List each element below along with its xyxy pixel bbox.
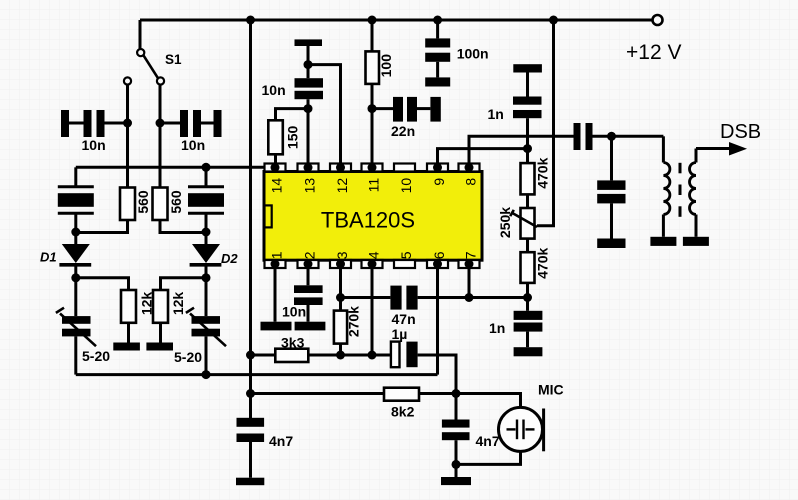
ground tank bbox=[597, 239, 625, 249]
wire cap to pin 13 bbox=[307, 99, 310, 163]
node +12V / 3k3 bbox=[246, 351, 255, 360]
capacitor 1n lower bbox=[526, 298, 529, 311]
resistor 150 bbox=[268, 120, 283, 154]
ground transformer primary bbox=[650, 237, 676, 246]
wire D1 node down to trimmer bbox=[74, 278, 77, 316]
wire 560L bottom to D1 node bbox=[76, 220, 128, 233]
wire bottom bus y=374.6 to pin 6 bbox=[76, 373, 438, 376]
node 470k / 1n / 47n line bbox=[523, 293, 532, 302]
wire pin 9 up to line B bbox=[438, 149, 528, 164]
wire D2 node to 12k right bbox=[161, 278, 207, 290]
svg-text:47n: 47n bbox=[392, 311, 416, 327]
ground 4n7 left bbox=[236, 478, 264, 486]
wire 150 to pin 14 bbox=[274, 154, 277, 163]
svg-text:8: 8 bbox=[463, 178, 479, 186]
wire 12k right to ground bbox=[159, 323, 162, 343]
svg-text:12k: 12k bbox=[170, 292, 186, 316]
wire crystal X2 to D2 bbox=[205, 213, 208, 244]
svg-text:TBA120S: TBA120S bbox=[321, 208, 415, 233]
capacitor 1n (top, open terminal) bbox=[513, 64, 542, 72]
mic electret symbol bbox=[507, 420, 535, 440]
node pin3 / 47n / 270k bbox=[336, 293, 345, 302]
wire 47n to pin7 node and 1n node bbox=[418, 296, 528, 299]
node pin11 / 22n bbox=[368, 104, 377, 113]
svg-text:+12 V: +12 V bbox=[626, 41, 681, 64]
svg-text:2: 2 bbox=[302, 251, 318, 259]
svg-text:7: 7 bbox=[463, 251, 479, 259]
capacitor 10n (pin 2) bbox=[294, 285, 323, 293]
wire 1u right to mic line jog bbox=[418, 355, 456, 394]
wire pin 7 down bbox=[468, 268, 471, 298]
node 270k / bias line bbox=[336, 351, 345, 360]
wire 270k to 3k3 line bbox=[339, 344, 342, 355]
wire D1 node to 12k left bbox=[76, 278, 129, 290]
capacitor 10n left (with open terminal bar) bbox=[61, 110, 105, 137]
node crystal2 top bbox=[202, 163, 211, 172]
svg-text:1: 1 bbox=[269, 251, 285, 259]
svg-text:3k3: 3k3 bbox=[281, 335, 305, 351]
DSB output arrow bbox=[729, 142, 747, 156]
wire secondary to DSB output bbox=[696, 147, 730, 150]
switch S1 bbox=[124, 49, 164, 85]
wire pin 3 down through 47n node bbox=[339, 268, 342, 311]
wire coupling cap to tank node bbox=[593, 135, 664, 138]
svg-text:4n7: 4n7 bbox=[476, 433, 500, 449]
pin dots bottom bbox=[271, 260, 474, 269]
svg-text:560: 560 bbox=[168, 190, 184, 214]
svg-text:11: 11 bbox=[366, 178, 382, 193]
ground 100n bbox=[425, 77, 450, 86]
wire terminal to cap bbox=[307, 46, 310, 78]
node tank bbox=[607, 132, 616, 141]
svg-text:12: 12 bbox=[334, 178, 350, 194]
svg-text:10n: 10n bbox=[181, 137, 205, 153]
svg-text:MIC: MIC bbox=[538, 382, 564, 398]
node 10n bottom / 150 branch bbox=[304, 104, 313, 113]
mic capsule bar bbox=[542, 409, 545, 452]
node rail/100 resistor bbox=[368, 16, 377, 25]
wire oscillator bus y=167.3 to pin 14 bbox=[76, 166, 275, 169]
resistor 270k bbox=[334, 311, 347, 344]
svg-text:10n: 10n bbox=[282, 304, 306, 320]
wire pin 1 to ground bbox=[274, 268, 277, 322]
wire bias line 3k3 to 1u bbox=[308, 354, 390, 357]
svg-text:4n7: 4n7 bbox=[269, 433, 293, 449]
capacitor 22n bbox=[372, 97, 441, 122]
svg-text:13: 13 bbox=[302, 178, 318, 194]
microphone MIC bbox=[499, 407, 543, 451]
resistor 12k left bbox=[121, 290, 136, 323]
wire cap to ground bbox=[307, 305, 310, 322]
wire branch to pin 12 bbox=[308, 65, 341, 164]
resistor 470k upper bbox=[521, 163, 535, 194]
svg-text:100n: 100n bbox=[457, 46, 489, 62]
pot 250k wiper arrow bbox=[511, 212, 537, 227]
svg-text:6: 6 bbox=[431, 251, 447, 259]
diode D1 bbox=[59, 244, 91, 265]
capacitor 47n bbox=[390, 286, 401, 310]
node X1/560L bbox=[71, 228, 80, 237]
IC pin tabs top bbox=[265, 164, 480, 172]
wire 100 to pin 11 bbox=[371, 84, 374, 164]
capacitor coupling (output) bbox=[574, 123, 581, 150]
diode D2 bbox=[190, 244, 222, 265]
resistor 12k right bbox=[153, 290, 168, 323]
svg-text:1µ: 1µ bbox=[392, 326, 408, 342]
wire trimmer L to bottom bus bbox=[74, 336, 77, 374]
capacitor tank bbox=[610, 136, 613, 180]
wire pin 2 to cap bbox=[307, 268, 310, 285]
wire S1 right contact down bbox=[159, 85, 162, 188]
crystal X2 bbox=[188, 187, 224, 213]
wire 3k3 line left bbox=[251, 354, 276, 357]
svg-text:14: 14 bbox=[269, 178, 285, 194]
resistor 3k3 bbox=[275, 349, 308, 362]
IC notch bbox=[265, 205, 272, 227]
resistor 560 left bbox=[120, 188, 135, 221]
potentiometer 250k bbox=[521, 208, 535, 239]
node D2 bottom bbox=[202, 273, 211, 282]
svg-text:9: 9 bbox=[431, 178, 447, 186]
ground pin 1 bbox=[261, 322, 292, 331]
resistor 8k2 bbox=[384, 388, 419, 401]
svg-text:1n: 1n bbox=[488, 106, 504, 122]
transformer T1 primary bbox=[662, 136, 665, 162]
svg-text:D1: D1 bbox=[40, 250, 57, 265]
wire left crystal column bbox=[74, 167, 77, 186]
node +12V / 8k2 bbox=[246, 389, 255, 398]
wire 470k lower to node bbox=[526, 283, 529, 298]
wire D1 to node bbox=[74, 266, 77, 280]
node junction S1-right / cap bbox=[156, 119, 165, 128]
pin number labels top row bbox=[269, 178, 479, 194]
svg-text:250k: 250k bbox=[497, 207, 513, 238]
node rail/+12V drop bbox=[246, 16, 255, 25]
node junction S1-left / cap bbox=[123, 119, 132, 128]
capacitor 10n (pin 13) plates bbox=[295, 78, 324, 87]
capacitor 4n7 (left, supply decoupling) bbox=[237, 418, 265, 427]
wire S1 left contact down to 560 bbox=[126, 85, 129, 188]
trimmer capacitor 5-20 left bbox=[56, 308, 96, 347]
crystal X1 bbox=[58, 187, 94, 213]
svg-text:560: 560 bbox=[135, 190, 151, 214]
wire terminal to 1n bbox=[526, 73, 529, 97]
node D1 bottom bbox=[71, 273, 80, 282]
transformer core bbox=[679, 163, 682, 217]
wire mic bottom return bbox=[456, 451, 521, 464]
wire right crystal column top bbox=[205, 167, 208, 186]
svg-text:10n: 10n bbox=[82, 137, 106, 153]
wire 470k to 250k bbox=[526, 194, 529, 208]
node X2/560R bbox=[202, 228, 211, 237]
wire 1n down across line A to node B bbox=[526, 118, 529, 163]
node rail/100n bbox=[433, 16, 442, 25]
ground transformer secondary bbox=[683, 237, 709, 246]
svg-text:5-20: 5-20 bbox=[174, 349, 202, 365]
capacitor 10n right (with open terminal bar) bbox=[180, 110, 222, 137]
wire pin 6 down to bottom bus bbox=[436, 268, 439, 375]
svg-text:470k: 470k bbox=[535, 248, 551, 279]
wire branch to resistor 150 bbox=[276, 109, 309, 121]
node pin 7 bbox=[465, 293, 474, 302]
wire 12k left to ground bbox=[127, 323, 130, 343]
svg-text:3: 3 bbox=[334, 251, 350, 259]
wire 250k to 470k lower bbox=[526, 239, 529, 253]
capacitor 4n7 (mic) bbox=[455, 394, 458, 420]
pin dots top bbox=[271, 163, 474, 172]
svg-text:10: 10 bbox=[398, 178, 414, 194]
wire +12V right drop x=553.5 bbox=[537, 20, 554, 226]
svg-text:10n: 10n bbox=[262, 82, 286, 98]
node mic line / 4n7 bbox=[452, 389, 461, 398]
pin number labels bottom row bbox=[269, 251, 479, 259]
trimmer capacitor 5-20 right bbox=[186, 308, 226, 347]
ground 12k right bbox=[146, 343, 173, 351]
svg-text:8k2: 8k2 bbox=[391, 404, 415, 420]
node 10n top / pin12 branch bbox=[304, 60, 313, 69]
wire rail to S1 common bbox=[139, 20, 142, 49]
svg-text:5-20: 5-20 bbox=[82, 348, 110, 364]
svg-text:22n: 22n bbox=[391, 123, 415, 139]
svg-text:D2: D2 bbox=[221, 251, 238, 266]
svg-text:1n: 1n bbox=[489, 320, 505, 336]
resistor 560 right bbox=[153, 188, 168, 221]
resistor 100 bbox=[371, 20, 374, 51]
svg-text:5: 5 bbox=[398, 251, 414, 259]
wire trimmer R to bottom bus bbox=[205, 336, 208, 374]
node pin 4 bbox=[368, 351, 377, 360]
wire pin 8 up to line A bbox=[469, 136, 574, 163]
wire crystal X1 to D1 bbox=[74, 213, 77, 244]
capacitor 10n pin13 column: open terminal bar bbox=[295, 39, 323, 46]
wire 8k2 line left bbox=[251, 392, 385, 395]
IC U1 TBA120S body bbox=[264, 172, 482, 261]
ground 4n7 mic bbox=[441, 477, 471, 485]
wire +12V drop column x=250.5 bbox=[249, 20, 252, 419]
node rail/right drop bbox=[549, 16, 558, 25]
svg-text:470k: 470k bbox=[535, 157, 551, 188]
ground 12k left bbox=[113, 343, 140, 351]
transformer T1 secondary bbox=[695, 149, 698, 163]
wire 47n line y=297.5 bbox=[341, 296, 391, 299]
wire 560R bottom to D2 node bbox=[160, 220, 206, 233]
capacitor 1n top plates bbox=[513, 97, 542, 105]
svg-text:150: 150 bbox=[285, 126, 301, 150]
svg-text:4: 4 bbox=[366, 251, 382, 259]
ground 1n lower bbox=[514, 347, 543, 356]
wire pin 4 down bbox=[371, 268, 374, 355]
svg-text:S1: S1 bbox=[165, 52, 182, 67]
svg-text:100: 100 bbox=[378, 54, 394, 78]
wire S1 arm bbox=[144, 56, 158, 79]
wire D2 to node bbox=[205, 266, 208, 280]
svg-text:DSB: DSB bbox=[720, 121, 761, 143]
terminal +12V bbox=[653, 15, 663, 25]
wire D2 node down to trimmer bbox=[205, 278, 208, 316]
svg-text:270k: 270k bbox=[346, 306, 362, 337]
IC pin tabs bottom bbox=[265, 260, 480, 268]
wire 8k2 to mic bbox=[419, 394, 521, 408]
resistor 470k lower bbox=[521, 252, 535, 283]
capacitor 1u electrolytic: plus plate outlined bbox=[391, 342, 400, 368]
wire +12V top rail bbox=[140, 19, 652, 22]
node 4n7 mic / mic return bbox=[452, 460, 461, 469]
node line B / 1n / 470k bbox=[523, 144, 532, 153]
capacitor 100n bbox=[436, 20, 439, 38]
ground pin 2 cap bbox=[295, 322, 326, 331]
node trimmer R / bottom bus bbox=[202, 370, 211, 379]
